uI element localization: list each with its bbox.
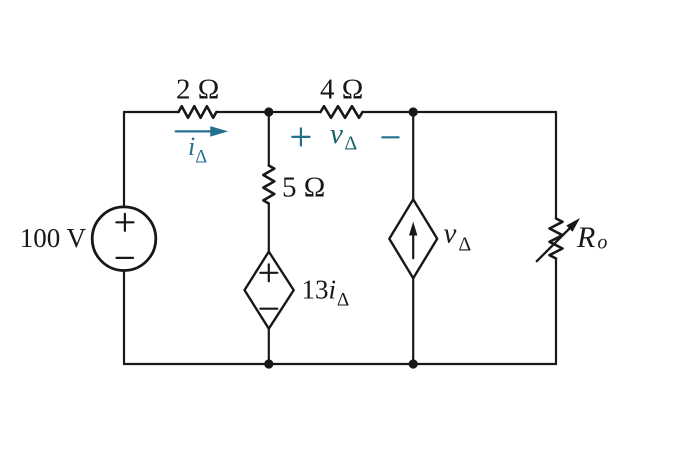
wire top-right segment xyxy=(363,111,557,113)
wire middle branch upper xyxy=(268,112,270,166)
current source arrowhead xyxy=(409,222,417,236)
wire top-left segment xyxy=(124,111,179,113)
resistor Ro zigzag xyxy=(550,219,563,259)
wire right branch lower xyxy=(555,259,557,365)
wire middle branch lower xyxy=(268,329,270,364)
polarity minus vD teal xyxy=(382,136,398,138)
wire right branch upper xyxy=(555,112,557,219)
polarity plus vD teal xyxy=(292,128,309,145)
svg-text:5 Ω: 5 Ω xyxy=(282,172,325,204)
wire top-middle segment xyxy=(217,111,321,113)
current arrow iD teal xyxy=(176,130,213,132)
variable resistor arrowhead xyxy=(566,218,580,232)
node junction top-right xyxy=(409,107,418,116)
wire bottom segment xyxy=(124,363,556,365)
wire right-middle branch lower xyxy=(412,278,414,364)
node junction bottom-middle xyxy=(264,359,273,368)
wire right-middle branch upper xyxy=(412,112,414,199)
dependent source minus sign xyxy=(260,308,277,310)
wire left-top segment xyxy=(123,112,125,207)
variable resistor arrow shaft xyxy=(537,227,571,261)
node junction top-middle xyxy=(264,107,273,116)
dependent current source vD diamond xyxy=(389,199,437,278)
resistor R 2ohm xyxy=(179,106,217,118)
dependent voltage source 13iD diamond xyxy=(245,252,294,329)
current source arrow shaft xyxy=(412,231,414,258)
voltage source minus sign xyxy=(117,257,134,259)
dependent source plus sign xyxy=(260,272,277,274)
voltage source 100V circle xyxy=(92,207,156,271)
svg-text:4 Ω: 4 Ω xyxy=(320,74,363,106)
voltage source plus sign xyxy=(116,221,133,223)
resistor R 5ohm xyxy=(263,166,274,204)
node junction bottom-right xyxy=(409,359,418,368)
current arrow head iD xyxy=(211,127,227,136)
svg-text:2 Ω: 2 Ω xyxy=(176,74,219,106)
resistor R 4ohm xyxy=(321,106,363,118)
svg-text:100 V: 100 V xyxy=(20,223,87,253)
wire middle branch mid xyxy=(268,204,270,252)
wire left-bottom segment xyxy=(123,271,125,365)
